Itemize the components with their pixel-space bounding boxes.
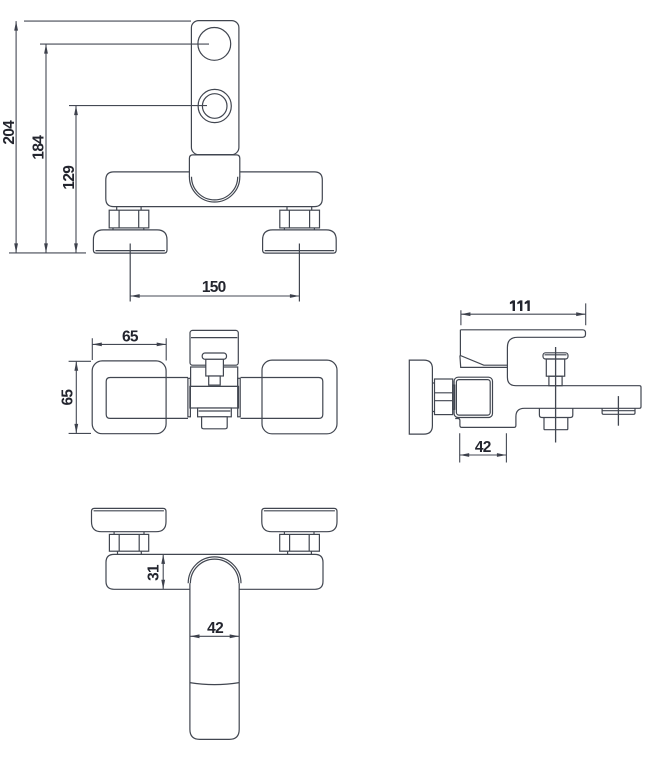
ext baseline (9, 252, 86, 254)
bottom right nut facets (290, 534, 310, 551)
bottom body (106, 554, 323, 589)
right flange strip (238, 378, 241, 417)
lower bar inner line (199, 410, 231, 412)
lever left edge (460, 330, 507, 365)
diverter neck (546, 359, 564, 376)
svg-text:150: 150 (202, 279, 226, 296)
arrowheads 150 (130, 294, 140, 298)
bottom left upper stubs (114, 532, 144, 535)
side hex nut facets (435, 393, 453, 401)
svg-text:42: 42 (475, 439, 491, 456)
left foot centerline (129, 244, 131, 302)
bottom left nut facets (119, 534, 139, 551)
bottom arch inner (190, 559, 238, 583)
ext line 184 (40, 43, 209, 45)
left flange strip (188, 378, 191, 417)
left foot dome (93, 230, 167, 253)
ext lines 111 (461, 303, 586, 325)
dim line 129 (75, 106, 77, 253)
lever plate edge line (191, 337, 237, 339)
svg-text:31: 31 (145, 564, 162, 581)
label 111 (510, 300, 530, 311)
ext lines 65 top (92, 338, 166, 360)
dim line 42 bottom (190, 635, 239, 637)
dim line 42 side (460, 454, 507, 456)
right hex nut facets (289, 210, 309, 228)
right outlet flange (602, 408, 635, 414)
dim line 184 (45, 44, 47, 253)
svg-text:65: 65 (59, 389, 76, 406)
side valve block inner (456, 380, 490, 416)
U-bend inner arc (192, 177, 238, 200)
svg-text:204: 204 (1, 120, 18, 145)
side ring (453, 385, 455, 409)
dim line 204 (15, 21, 17, 253)
side hex nut (435, 379, 453, 415)
connector lines (460, 356, 508, 368)
dim line 111 (461, 313, 586, 315)
outlet centerline (617, 396, 619, 426)
hose block (544, 418, 568, 430)
right foot seam (265, 250, 334, 252)
side dome stubs (432, 383, 434, 412)
right hex nut (280, 210, 320, 228)
bottom right upper stubs (284, 532, 314, 535)
right foot centerline (298, 244, 300, 302)
right outlet flange line (602, 410, 635, 412)
right foot dome (263, 230, 337, 253)
ext lines 42 side (460, 433, 507, 462)
bottom handle outline (190, 583, 239, 739)
lower bar top view (198, 408, 232, 417)
bottom right lower stubs (288, 551, 312, 554)
cartridge block top view (190, 386, 239, 408)
arrowheads 65 left (74, 361, 78, 371)
bottom right dome (262, 508, 337, 531)
svg-text:129: 129 (61, 165, 78, 190)
cartridge cover top view (191, 367, 238, 386)
left leg lower stubs (113, 228, 144, 230)
stem cap top view (202, 353, 226, 359)
right wall flange square (262, 360, 337, 434)
ext line top 204 (24, 20, 191, 22)
bottom right dome seam (264, 510, 335, 512)
left leg upper stubs (117, 207, 141, 210)
diverter cap (543, 353, 568, 359)
handle ring outer (198, 89, 231, 122)
hose flange (539, 408, 572, 417)
handle top circle (198, 28, 231, 61)
diverter cap line (545, 354, 567, 356)
side valve block (454, 377, 492, 417)
U-bend outer arc (189, 177, 239, 202)
lever blade side view (455, 330, 641, 428)
svg-text:42: 42 (207, 620, 223, 637)
handle ring inner (202, 94, 227, 119)
bottom handle division (190, 683, 239, 685)
left hex nut (109, 210, 149, 228)
bottom right nut (280, 534, 320, 551)
bottom left lower stubs (118, 551, 142, 554)
ext lines 65 left (69, 361, 91, 433)
diverter stem (549, 376, 562, 386)
lever plate top view (190, 330, 238, 365)
arrowheads 42 bottom (190, 634, 200, 638)
body bar top view (106, 378, 323, 419)
handle shaft and U-bend (189, 155, 239, 177)
left hex nut facets (119, 210, 139, 228)
svg-text:65: 65 (122, 328, 139, 345)
stem top view (206, 359, 224, 376)
bottom block top view (202, 417, 228, 429)
dim line 150 (130, 295, 299, 297)
right leg lower stubs (284, 228, 314, 230)
dim line 31 (162, 554, 164, 589)
handle lever plate (191, 21, 239, 155)
dim line 65 left (75, 361, 77, 433)
right leg upper stubs (287, 207, 312, 210)
bottom left nut (109, 534, 148, 551)
arrowheads 204 (14, 21, 18, 31)
bottom left dome (92, 508, 167, 531)
svg-text:184: 184 (30, 135, 47, 160)
bottom left dome seam (94, 510, 164, 512)
left wall flange square (92, 361, 166, 434)
arrowheads 111 (461, 312, 471, 316)
bottom arch outer (188, 557, 241, 583)
front body (106, 172, 322, 207)
arrowheads 31 (161, 554, 165, 564)
arrowheads 129 (74, 106, 78, 116)
diverter centerline (555, 347, 557, 443)
dim line 65 top (92, 343, 166, 345)
left foot seam (96, 250, 165, 252)
arrowheads 42 side (460, 453, 470, 457)
stem lower top view (209, 376, 221, 385)
arrowheads 184 (44, 44, 48, 54)
ext line 129 (69, 105, 207, 107)
arrowheads 65 top (92, 343, 102, 347)
side dome (409, 360, 432, 434)
